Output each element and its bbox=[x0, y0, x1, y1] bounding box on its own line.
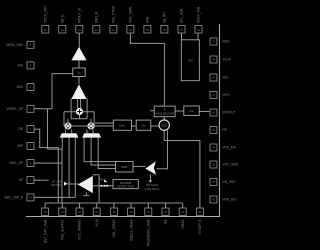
svg-text:VDD_SBIN: VDD_SBIN bbox=[129, 6, 133, 23]
svg-text:SPB: SPB bbox=[146, 17, 150, 23]
svg-text:VSKL_SP: VSKL_SP bbox=[9, 161, 23, 165]
svg-text:4SP: 4SP bbox=[17, 144, 23, 148]
svg-text:DBO_B: DBO_B bbox=[95, 12, 99, 23]
svg-text:SCLK: SCLK bbox=[223, 58, 232, 62]
svg-text:SPKOUT: SPKOUT bbox=[223, 111, 236, 115]
svg-text:3s: 3s bbox=[142, 123, 146, 127]
svg-text:RESERVED_SWA: RESERVED_SWA bbox=[147, 219, 151, 246]
svg-text:VSK_SUPPLY: VSK_SUPPLY bbox=[61, 219, 65, 240]
svg-text:3D: 3D bbox=[198, 210, 201, 214]
svg-text:SPI: SPI bbox=[188, 59, 193, 63]
svg-text:VKK_EW: VKK_EW bbox=[223, 146, 236, 150]
svg-text:OV: OV bbox=[189, 109, 193, 113]
svg-text:AVD: AVD bbox=[17, 85, 24, 89]
svg-text:2x: 2x bbox=[77, 70, 81, 74]
svg-text:DAC: DAC bbox=[119, 123, 126, 127]
svg-text:SDO: SDO bbox=[223, 40, 230, 44]
svg-text:DETECT: DETECT bbox=[51, 183, 63, 187]
svg-text:1B: 1B bbox=[44, 210, 47, 214]
svg-text:2IR: 2IR bbox=[18, 127, 24, 131]
svg-text:VODLS_REGA: VODLS_REGA bbox=[129, 219, 133, 241]
svg-text:VN_VOC: VN_VOC bbox=[223, 180, 237, 184]
svg-text:VDDA_IOB: VDDA_IOB bbox=[197, 7, 201, 23]
svg-text:RP: RP bbox=[223, 128, 227, 132]
svg-text:SCL_SSB: SCL_SSB bbox=[180, 9, 184, 23]
svg-text:VDDA_DRV: VDDA_DRV bbox=[44, 5, 48, 23]
svg-text:GPO: GPO bbox=[223, 93, 231, 97]
svg-text:IN_B: IN_B bbox=[95, 220, 99, 227]
svg-text:SB_INT: SB_INT bbox=[163, 12, 167, 23]
svg-text:VCC_SWARD: VCC_SWARD bbox=[78, 219, 82, 240]
svg-text:VOL_VTWA: VOL_VTWA bbox=[112, 5, 116, 23]
svg-text:SENS: SENS bbox=[100, 179, 106, 181]
svg-text:VOE_DIG: VOE_DIG bbox=[223, 198, 238, 202]
svg-text:BST_CAP_B: BST_CAP_B bbox=[5, 196, 23, 200]
svg-text:VDDA_DBV: VDDA_DBV bbox=[6, 43, 24, 47]
svg-text:AID: AID bbox=[18, 64, 24, 68]
svg-text:AVOUT_B: AVOUT_B bbox=[78, 8, 82, 23]
svg-text:CONTROL: CONTROL bbox=[145, 187, 160, 191]
svg-text:BST_CAP_SWA: BST_CAP_SWA bbox=[43, 219, 47, 243]
svg-text:AMP: AMP bbox=[121, 165, 128, 169]
svg-text:VTSMP_B: VTSMP_B bbox=[198, 220, 202, 235]
svg-text:GRAE: GRAE bbox=[181, 220, 185, 229]
svg-text:VDDPL_SP: VDDPL_SP bbox=[6, 107, 23, 111]
svg-text:2E: 2E bbox=[130, 210, 133, 214]
svg-text:SB_O: SB_O bbox=[61, 14, 65, 23]
svg-text:SP: SP bbox=[19, 178, 23, 182]
svg-text:SEQUENCER: SEQUENCER bbox=[155, 112, 175, 116]
svg-text:VCO: VCO bbox=[161, 123, 167, 127]
svg-text:VOL_KOWS: VOL_KOWS bbox=[112, 220, 116, 238]
svg-text:DETECTOR: DETECTOR bbox=[117, 185, 134, 189]
svg-text:SDI: SDI bbox=[223, 76, 228, 80]
svg-text:VOC_VDD: VOC_VDD bbox=[223, 163, 239, 167]
svg-text:NB: NB bbox=[164, 220, 168, 224]
